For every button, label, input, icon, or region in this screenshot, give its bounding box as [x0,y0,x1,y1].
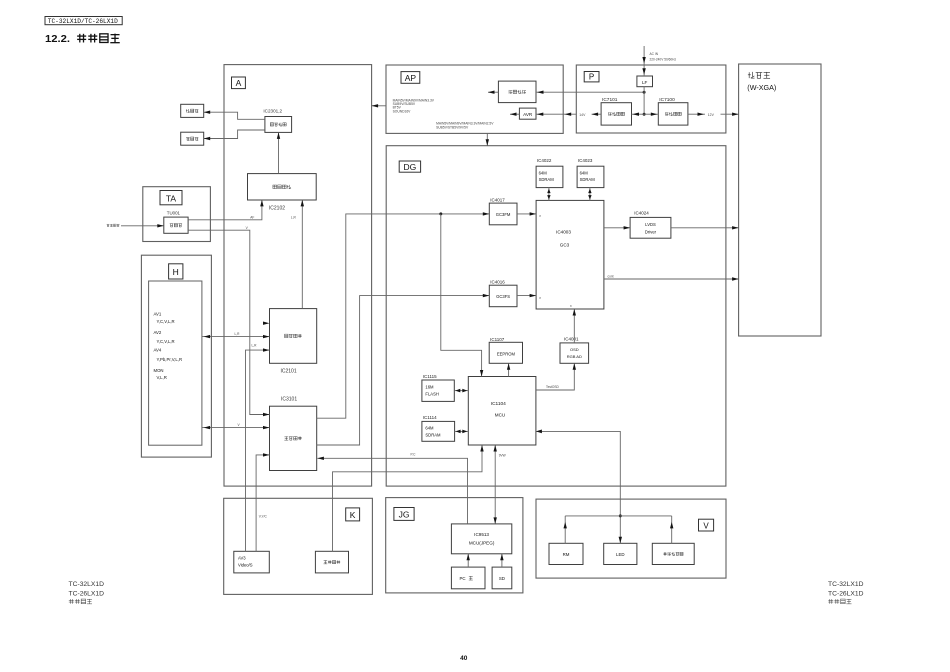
svg-text:V,Y/C: V,Y/C [259,514,268,518]
wire rail to IC7100 [644,113,658,116]
wire AVR out left [510,113,519,116]
svg-text:SDRAM: SDRAM [580,177,596,182]
block AV3 Video/S [234,551,269,573]
svg-text:40: 40 [460,655,468,662]
svg-text:220-240V 50/60Hz: 220-240V 50/60Hz [650,58,677,62]
eeprom IC1107 [489,337,522,364]
sound processor IC2102 声音处理 [248,174,317,212]
label box K [346,508,360,521]
svg-text:IC2101: IC2101 [281,369,297,375]
svg-text:RGB AD: RGB AD [567,354,582,359]
svg-text:LVDS: LVDS [645,222,656,227]
sdram IC1114 64M SDRAM [422,415,455,441]
wire GC3FM to GC3 pin [517,212,541,218]
label box H [169,264,183,279]
label 14V [579,113,586,117]
svg-text:IC4023: IC4023 [578,158,593,163]
wire H to audio switch L,R [202,332,270,339]
svg-text:LED: LED [616,552,625,557]
wire amp to left speaker [204,111,265,120]
svg-text:IC9513: IC9513 [474,532,489,537]
wire AP to A power [372,104,386,107]
key switch 按键切换 [315,551,348,573]
svg-text:V: V [703,522,709,531]
footer right model text [828,581,864,604]
sdram IC4022 64M SDRAM [536,158,563,188]
svg-text:Y,C,V,L,R: Y,C,V,L,R [157,339,175,344]
wire IC4022 to GC3 bidir [547,188,550,201]
wire IC7100 out 12V [688,113,739,117]
svg-text:AV1: AV1 [154,311,162,316]
wire MCU to V panel [536,430,622,544]
tuner TU001 调谐器 [164,211,188,234]
svg-text:IC1115: IC1115 [423,374,437,379]
main power switch 主电源开关 [652,543,694,564]
wire MCU TestOSD to IC4001 [536,363,576,390]
svg-text:IC4022: IC4022 [537,158,552,163]
wire 14V to AVR [536,113,576,116]
svg-text:Driver: Driver [645,229,657,234]
svg-text:GC3FS: GC3FS [496,294,510,299]
svg-text:PC: PC [460,576,466,581]
svg-text:12.2.: 12.2. [45,33,70,45]
svg-text:DG: DG [404,162,417,172]
svg-text:AP: AP [405,73,417,83]
svg-text:L,R: L,R [252,343,258,347]
svg-text:GC3FM: GC3FM [496,212,511,217]
audio amp U IC2301,2 音频放大 [263,109,291,133]
block voltage control 电压控制 [498,81,536,103]
wire IC7101 out 14V [592,113,602,116]
wire AC input [642,46,676,76]
block IC4017 GC3FM [489,197,517,225]
wire GC3 cont to LCD [604,275,739,281]
block PC card PC卡 [451,567,485,589]
svg-text:IC3101: IC3101 [281,397,297,403]
label box TA [160,191,182,205]
wire FLASH MCU bidir [454,389,468,393]
svg-text:IC4003: IC4003 [556,229,571,234]
svg-text:IC2102: IC2102 [269,205,285,211]
svg-text:14V: 14V [579,113,586,117]
wire IC4001 to GC3 bottom [570,304,576,343]
wire V panel bus [564,516,674,543]
wire PC card to IC9513 [467,554,470,567]
svg-text:OSD: OSD [570,347,579,352]
wire key switch to MCU [333,445,484,551]
svg-text:TestOSD: TestOSD [546,385,559,389]
label box A [232,77,246,89]
svg-text:Video/S: Video/S [238,563,253,568]
svg-text:IC2301,2: IC2301,2 [263,109,282,114]
wire IC4023 to GC3 bidir [588,188,591,201]
label box P [584,72,599,82]
block LF filter [637,76,653,87]
block right speaker 右音箱 [181,132,204,145]
svg-text:JG: JG [399,510,410,520]
svg-text:MCU: MCU [495,413,505,418]
svg-text:GC3: GC3 [560,243,570,248]
svg-text:AF: AF [250,216,254,220]
svg-text:TC-26LX1D: TC-26LX1D [69,590,105,597]
block left speaker 左音箱 [181,104,204,117]
svg-text:L,R: L,R [235,332,241,336]
container P [576,65,726,133]
wire stub into audio switch [263,322,270,325]
block IC4001 OSD RGB AD [560,336,589,363]
lvds driver IC4024 [630,211,671,239]
block AVR [519,108,536,119]
container K [224,498,373,594]
wire AV3 video to video switch [256,453,269,551]
container TA [143,187,211,242]
svg-text:Y,C,V,L,R: Y,C,V,L,R [157,319,175,324]
junction P feed [643,91,646,94]
svg-text:MON: MON [154,368,164,373]
svg-text:64M: 64M [580,170,589,175]
label box JG [394,508,414,521]
block IC4016 GC3FS [489,279,517,306]
svg-text:H: H [173,267,179,277]
svg-text:SD: SD [499,576,505,581]
label box V [699,519,714,531]
svg-text:RM: RM [563,552,570,557]
svg-text:IC1107: IC1107 [490,337,505,342]
svg-text:8: 8 [539,296,541,300]
svg-text:A: A [236,78,242,88]
AP rail text block 2 [436,122,494,130]
container JG [386,498,523,593]
wire voltage control out left [488,91,498,94]
svg-text:P: P [589,73,594,82]
container V [536,499,726,578]
wire P.C from jpeg mcu to video switch [317,452,467,524]
label box AP [401,72,420,84]
flash IC1115 16M FLASH [422,374,454,402]
jpeg mcu IC9513 [451,524,511,554]
wire AV3 audio to audio switch [246,343,270,551]
footer left model text [69,581,105,604]
svg-text:TA: TA [166,194,177,204]
svg-text:P.C: P.C [411,452,417,456]
svg-text:(W-XGA): (W-XGA) [747,83,776,92]
svg-text:IC4024: IC4024 [634,211,649,216]
block RM remote [549,543,583,564]
svg-text:TU001: TU001 [167,211,181,216]
svg-text:LF: LF [642,80,648,85]
svg-text:IC1114: IC1114 [423,415,437,420]
wire video switch to GC3FM [317,212,490,418]
page number [460,655,468,662]
block LED [604,543,637,564]
wire IC1114 MCU bidir [455,430,469,434]
svg-text:64M: 64M [539,170,548,175]
svg-text:16M: 16M [425,385,434,390]
container H [141,255,211,457]
svg-text:8: 8 [539,214,541,218]
label V,Y/C [259,514,268,518]
svg-text:12V: 12V [708,113,715,117]
svg-text:IC4001: IC4001 [564,336,579,341]
container LCD panel 液晶板 [739,64,821,336]
svg-text:AV2: AV2 [154,330,162,335]
svg-text:AC IN: AC IN [650,52,659,56]
container DG [386,146,726,486]
main video processor IC4003 GC3 [536,200,604,309]
wire video switch to GC3FS [317,294,490,445]
wire rail to IC7101 [632,113,645,116]
svg-text:FLASH: FLASH [425,392,439,397]
wire sound proc to amp [277,132,280,173]
svg-text:IC4016: IC4016 [490,279,505,284]
heading 12.2. 主方框图 [45,33,120,45]
container H inner AV inputs [149,281,202,445]
wire LF to rail [643,87,645,115]
title model box [45,17,122,25]
svg-text:IC4017: IC4017 [490,197,505,202]
video switch IC3101 视频切换 [270,397,317,471]
block SD [492,567,512,589]
svg-text:AV4: AV4 [154,347,162,352]
svg-text:9VW: 9VW [499,454,506,458]
power output IC7101 电源输出 [601,97,631,125]
AP rail text block 1 [393,98,435,113]
junction video bus [439,212,442,215]
wire LVDS to LCD [671,226,739,229]
wire P to voltage control [536,91,644,94]
wire amp to right speaker [204,130,265,140]
svg-text:MCU(JPEG): MCU(JPEG) [469,541,495,546]
wire GC3FS to GC3 pin [517,294,541,300]
power output IC7100 电源输出 [658,97,688,125]
wire SD to IC9513 [500,554,503,567]
svg-text:L,R: L,R [291,216,297,220]
wire tuner V to video switch [188,226,269,416]
label box DG [399,161,420,172]
svg-text:K: K [350,510,356,520]
wire tuner AF to sound proc [188,200,264,220]
wire H MON to video switch [202,423,270,429]
svg-text:EEPROM: EEPROM [497,351,516,356]
wire MCU to jpeg MCU bidir [494,445,506,524]
svg-text:TC-32LX1D/TC-26LX1D: TC-32LX1D/TC-26LX1D [48,18,118,25]
wire branch to MCU top [441,214,484,377]
svg-text:SOUND16V: SOUND16V [393,109,412,113]
svg-text:8: 8 [570,304,572,308]
svg-text:SDRAM: SDRAM [539,177,555,182]
wire AP to DG power [486,133,489,145]
container AP [386,65,563,133]
svg-text:V: V [246,226,249,230]
svg-text:Y,Pb,Pr,V,L,R: Y,Pb,Pr,V,L,R [157,357,183,362]
svg-text:SDRAM: SDRAM [425,432,441,437]
sdram IC4023 64M SDRAM [577,158,604,188]
container A [224,65,372,487]
svg-text:cont: cont [608,275,614,279]
junction LF rail [643,113,646,116]
svg-text:V,L,R: V,L,R [157,375,167,380]
wire audio switch L,R to sound proc [291,200,304,309]
wire MCU to EEPROM [507,363,510,376]
svg-text:64M: 64M [425,425,434,430]
svg-text:AVR: AVR [523,112,533,117]
svg-text:TC-32LX1D: TC-32LX1D [828,581,864,588]
svg-text:TC-26LX1D: TC-26LX1D [828,590,864,597]
svg-text:SUB5V/STB5V/9V/5V: SUB5V/STB5V/9V/5V [436,125,469,129]
svg-text:V: V [238,423,241,427]
svg-text:AV3: AV3 [238,555,246,560]
mcu IC1104 [468,377,536,446]
wire antenna input [107,224,164,228]
wire GC3 to LVDS [604,226,630,229]
svg-text:IC1104: IC1104 [491,401,506,407]
audio switch IC2101 音频切换 [270,309,317,375]
junction V panel [619,514,622,517]
svg-text:TC-32LX1D: TC-32LX1D [69,581,105,588]
